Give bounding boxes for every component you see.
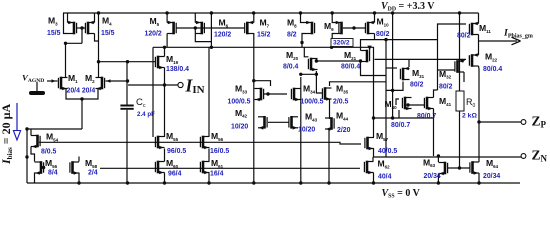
svg-text:M10: M10	[377, 16, 390, 27]
wire M32 drain down	[463, 72, 465, 82]
svg-text:M55: M55	[166, 131, 179, 142]
transistor M43	[290, 116, 293, 129]
svg-text:80/0.7: 80/0.7	[417, 113, 436, 120]
svg-text:80/2: 80/2	[439, 84, 453, 91]
wire tail down	[81, 99, 83, 129]
transistor M56	[202, 136, 205, 149]
svg-text:M22: M22	[485, 52, 498, 63]
wire M31 drain up	[408, 59, 410, 67]
svg-text:2/4: 2/4	[88, 170, 98, 177]
wire M42-M43 gate link	[268, 121, 289, 123]
svg-text:M5: M5	[150, 16, 160, 27]
wire M35 source to M44	[329, 99, 331, 119]
svg-text:15/5: 15/5	[47, 30, 61, 37]
wire M40 gate hook	[396, 99, 399, 105]
wire M63-M64 gate link	[448, 167, 470, 169]
transistor M58	[40, 161, 43, 174]
svg-text:M33: M33	[235, 83, 248, 94]
svg-text:8/2: 8/2	[287, 31, 297, 38]
wire M11 gate line	[438, 24, 467, 40]
wire M9 source up to rail	[332, 13, 335, 23]
wire VDD left drop to M3 source	[64, 13, 68, 34]
svg-text:80/0.7: 80/0.7	[391, 122, 410, 129]
transistor M4	[87, 22, 90, 35]
wire gate line y169	[100, 167, 360, 169]
wire M20 gate hook up	[304, 47, 308, 57]
wire Ipbias arrow line	[479, 40, 518, 42]
svg-text:ZP: ZP	[532, 113, 547, 129]
transistor M62	[366, 161, 369, 174]
wire ZP line	[479, 121, 522, 123]
svg-text:M63: M63	[423, 157, 436, 168]
wire vertical x153 to M55 gate	[152, 47, 154, 137]
svg-text:100/0.5: 100/0.5	[301, 99, 324, 106]
wire M20 source down	[301, 71, 317, 74]
svg-text:8/0.5: 8/0.5	[41, 149, 56, 156]
svg-text:16/0.5: 16/0.5	[210, 148, 229, 155]
transistor M57	[366, 137, 369, 150]
svg-text:16/4: 16/4	[210, 170, 224, 177]
wire M19 gate line y61.7	[99, 61, 156, 63]
wire M40-M41 link y105	[408, 104, 424, 106]
transistor M63	[444, 162, 447, 175]
wire vertical x437.5	[437, 40, 439, 90]
svg-text:320/2: 320/2	[333, 40, 350, 47]
svg-text:IIN: IIN	[185, 75, 205, 96]
wire node line to M11 gate	[386, 39, 438, 41]
wire M8 drain down	[302, 34, 306, 48]
wire M60 source down	[164, 173, 166, 184]
capacitor Cc	[120, 106, 133, 109]
svg-text:M1: M1	[68, 73, 78, 84]
wire M54-M56 cascode link	[31, 147, 35, 162]
wire M21/M22 gate line y59.4	[375, 58, 467, 60]
wire M21 source to x386	[361, 61, 387, 76]
svg-text:10/20: 10/20	[298, 126, 315, 133]
svg-text:M57: M57	[376, 131, 389, 142]
wire M7 source up to rail	[253, 13, 255, 23]
wire VSS rail	[27, 182, 520, 184]
wire M22 gate hook	[468, 55, 470, 59]
junction dots mid	[64, 42, 67, 45]
wire M4 drain down	[95, 34, 99, 42]
terminal IIN	[178, 82, 183, 87]
wire M5 drain down to bias line	[166, 34, 168, 48]
svg-text:M42: M42	[235, 108, 248, 119]
svg-text:2/20: 2/20	[337, 127, 351, 134]
transistor M61	[202, 161, 205, 174]
svg-text:M7: M7	[260, 17, 270, 28]
svg-text:15/5: 15/5	[101, 30, 115, 37]
svg-text:40/0.5: 40/0.5	[378, 148, 397, 155]
svg-text:2 kΩ: 2 kΩ	[462, 112, 477, 119]
wire M58 source down	[78, 173, 80, 184]
svg-text:M41: M41	[439, 96, 452, 107]
svg-text:100/0.5: 100/0.5	[228, 99, 251, 106]
ground AGND symbol	[36, 82, 38, 91]
wire M64 source to VSS	[478, 173, 480, 183]
svg-text:96/4: 96/4	[168, 170, 182, 177]
junction dots VDD rail	[97, 11, 100, 14]
svg-text:40/4: 40/4	[378, 174, 392, 181]
svg-text:120/2: 120/2	[145, 31, 162, 38]
svg-text:80/0.4: 80/0.4	[483, 66, 502, 73]
svg-text:80/2: 80/2	[457, 33, 471, 40]
wire R0 bottom to gate node	[459, 111, 461, 168]
svg-text:R0: R0	[466, 97, 476, 109]
wire M54 drain up	[30, 129, 32, 136]
wire gate node drop	[81, 28, 83, 43]
wire M21 gate hook up with arrow	[369, 47, 371, 51]
svg-text:10/20: 10/20	[231, 124, 248, 131]
wire M55 cascode link	[164, 149, 166, 162]
wire VDD drop to R0	[459, 13, 461, 91]
transistor M33	[260, 88, 263, 101]
svg-text:M60: M60	[166, 158, 179, 169]
transistor M19	[157, 56, 160, 69]
wire M56 source down	[34, 173, 36, 184]
wire VDD top rail	[63, 12, 479, 14]
svg-text:15/2: 15/2	[257, 31, 271, 38]
transistor M3	[73, 22, 76, 35]
svg-text:2/0.5: 2/0.5	[333, 99, 348, 106]
svg-text:20/34: 20/34	[483, 173, 500, 180]
svg-text:M58: M58	[85, 158, 98, 169]
wire M62 drain up	[372, 157, 374, 161]
wire tail to M54	[27, 128, 82, 130]
wire Cc branch top	[126, 62, 128, 105]
svg-text:20/4 20/4: 20/4 20/4	[67, 88, 96, 95]
svg-text:M40: M40	[385, 99, 398, 110]
svg-text:M56: M56	[211, 131, 224, 142]
svg-text:IPbias_gm: IPbias_gm	[503, 28, 533, 40]
wire M5-M7 gate link	[176, 27, 245, 29]
wire M33 drain jog	[254, 81, 271, 86]
wire node y118	[374, 117, 434, 119]
wire M61 source down	[208, 173, 210, 184]
wire M63 source to VSS	[437, 174, 439, 184]
wire M2 drain vertical	[98, 13, 100, 78]
wire M1 drain vertical	[65, 43, 67, 78]
wire VAGND to M1 gate	[47, 80, 58, 82]
wire M2 gate to Cc node	[106, 80, 128, 82]
wire vertical x392.6 rail to M40	[392, 13, 394, 118]
svg-text:M62: M62	[378, 158, 391, 169]
transistor M35	[324, 87, 327, 100]
transistor M22	[471, 54, 474, 67]
resistor R0	[456, 91, 464, 111]
wire M34/M43 column vertical	[300, 77, 302, 183]
svg-text:Cc: Cc	[136, 97, 146, 109]
terminal ZP	[521, 120, 526, 125]
svg-text:M61: M61	[211, 158, 224, 169]
wire M5 source up to rail	[166, 13, 168, 23]
transistor M59	[71, 161, 74, 174]
wire vertical x386 long	[385, 40, 387, 157]
transistor M40	[404, 97, 407, 110]
wire M11 source to Ipbias line	[478, 35, 480, 56]
transistor M31	[402, 68, 405, 81]
svg-text:120/2: 120/2	[214, 31, 231, 38]
wire M63 drain to ZN	[437, 156, 439, 162]
svg-text:8/0.4: 8/0.4	[283, 64, 298, 71]
svg-text:M20: M20	[286, 50, 299, 61]
transistor M21	[366, 50, 369, 63]
transistor M20	[310, 58, 313, 71]
svg-text:80/0.4: 80/0.4	[341, 64, 360, 71]
transistor M11	[471, 23, 474, 36]
value box 320/2	[331, 39, 353, 47]
wire cross-couple link	[66, 42, 83, 44]
transistor M5	[172, 22, 175, 35]
wire M58 drain stub	[78, 157, 80, 162]
wire bias line y47.6	[153, 47, 374, 137]
transistor M44	[330, 117, 333, 130]
terminal ZN	[521, 154, 526, 159]
svg-text:138/0.4: 138/0.4	[166, 66, 189, 73]
svg-text:M44: M44	[336, 111, 349, 122]
svg-text:VAGND: VAGND	[22, 73, 44, 85]
wire M10 drain down	[374, 34, 376, 40]
wire M32 gate link	[438, 69, 455, 71]
wire M35 drain to x386	[330, 82, 387, 86]
svg-text:96/0.5: 96/0.5	[167, 148, 186, 155]
svg-text:80/2: 80/2	[410, 82, 424, 89]
transistor M7	[246, 22, 249, 35]
wire M4 source up	[94, 13, 96, 23]
wire M19 drain up	[164, 47, 166, 56]
wire M56 cascode link	[208, 149, 210, 162]
wire M10 source up to rail	[374, 13, 376, 23]
svg-text:M56: M56	[45, 158, 58, 169]
transistor M2	[101, 77, 104, 90]
wire M8 source up to rail	[301, 13, 306, 23]
wire IIN lead	[128, 84, 178, 86]
wire rail drop to M11 drain	[478, 13, 480, 24]
wire M6 source up to rail	[194, 13, 196, 23]
svg-text:M2: M2	[85, 73, 95, 84]
transistor M1	[60, 77, 63, 90]
wire M9 drain to M10 gate	[343, 27, 366, 29]
wire M57 source to ZN	[373, 148, 375, 157]
transistor M64	[471, 161, 474, 174]
svg-text:VDD = +3.3 V: VDD = +3.3 V	[381, 1, 435, 13]
svg-text:M4: M4	[102, 16, 112, 27]
svg-text:M54: M54	[46, 131, 59, 142]
transistor M10	[367, 22, 370, 35]
transistor M60	[157, 161, 160, 174]
svg-text:M6: M6	[219, 17, 229, 28]
transistor M41	[426, 97, 429, 110]
transistor M32	[456, 60, 459, 73]
wire M1/M2 tail	[66, 88, 98, 99]
wire M19 source down to IIN node	[164, 68, 166, 138]
wire M20 drain to M21	[316, 60, 360, 62]
wire M22 source down to ZP node	[478, 66, 481, 162]
svg-text:ZN: ZN	[532, 147, 548, 163]
transistor M6	[201, 22, 204, 35]
svg-text:M21: M21	[344, 50, 357, 61]
svg-text:M35: M35	[336, 83, 349, 94]
svg-text:M19: M19	[166, 54, 179, 65]
svg-text:M64: M64	[486, 158, 499, 169]
svg-text:VSS = 0 V: VSS = 0 V	[382, 188, 421, 200]
wire M7 drain down long vertical	[253, 33, 255, 183]
wire M41 source down to ZN	[433, 109, 435, 157]
svg-text:M43: M43	[305, 112, 318, 123]
wire M9 drain loop down	[332, 34, 335, 48]
wire M31 gate hook	[386, 67, 397, 69]
wire left VSS drop	[26, 129, 28, 183]
transistor M55	[157, 136, 160, 149]
wire M62 source down	[373, 173, 375, 184]
Ibias arrow blue	[16, 103, 18, 130]
wire Cc branch bottom	[126, 110, 128, 183]
svg-text:20/34: 20/34	[424, 173, 441, 180]
wire gate link drop jog	[195, 28, 211, 47]
svg-text:8/4: 8/4	[48, 170, 58, 177]
wire M20 source branch down to M35 gate	[316, 74, 322, 93]
transistor M42	[263, 116, 266, 129]
wire gate line y140	[39, 142, 361, 144]
svg-text:M31: M31	[412, 68, 425, 79]
wire M3 drain up to rail	[67, 13, 69, 23]
svg-text:80/2: 80/2	[376, 31, 390, 38]
wire M3/M4 gate join	[77, 27, 86, 29]
junction dots VSS rail	[77, 181, 80, 184]
wire M41 drain up	[434, 90, 438, 98]
wire M33 gate to M34 gate	[264, 93, 287, 95]
svg-text:M34: M34	[303, 83, 316, 94]
wire M31 source down	[386, 82, 403, 91]
wire M56 drain up	[208, 47, 210, 136]
wire M21 drain up to node	[361, 40, 387, 51]
transistor M8	[311, 22, 314, 35]
svg-text:M3: M3	[48, 16, 58, 27]
svg-text:2.4 pF: 2.4 pF	[137, 111, 155, 118]
wire rail drop x211.4	[210, 13, 212, 42]
transistor M9	[340, 22, 343, 35]
transistor M34	[293, 88, 296, 101]
wire M32 source up	[463, 59, 465, 61]
wire M44 source down to VSS	[328, 129, 330, 183]
svg-text:Ibias = 20 µA: Ibias = 20 µA	[0, 104, 14, 165]
svg-text:M11: M11	[479, 23, 491, 34]
wire M40 source down	[398, 110, 400, 118]
svg-text:M8: M8	[287, 17, 297, 28]
transistor M54	[36, 135, 39, 148]
wire ZN line	[374, 156, 522, 158]
